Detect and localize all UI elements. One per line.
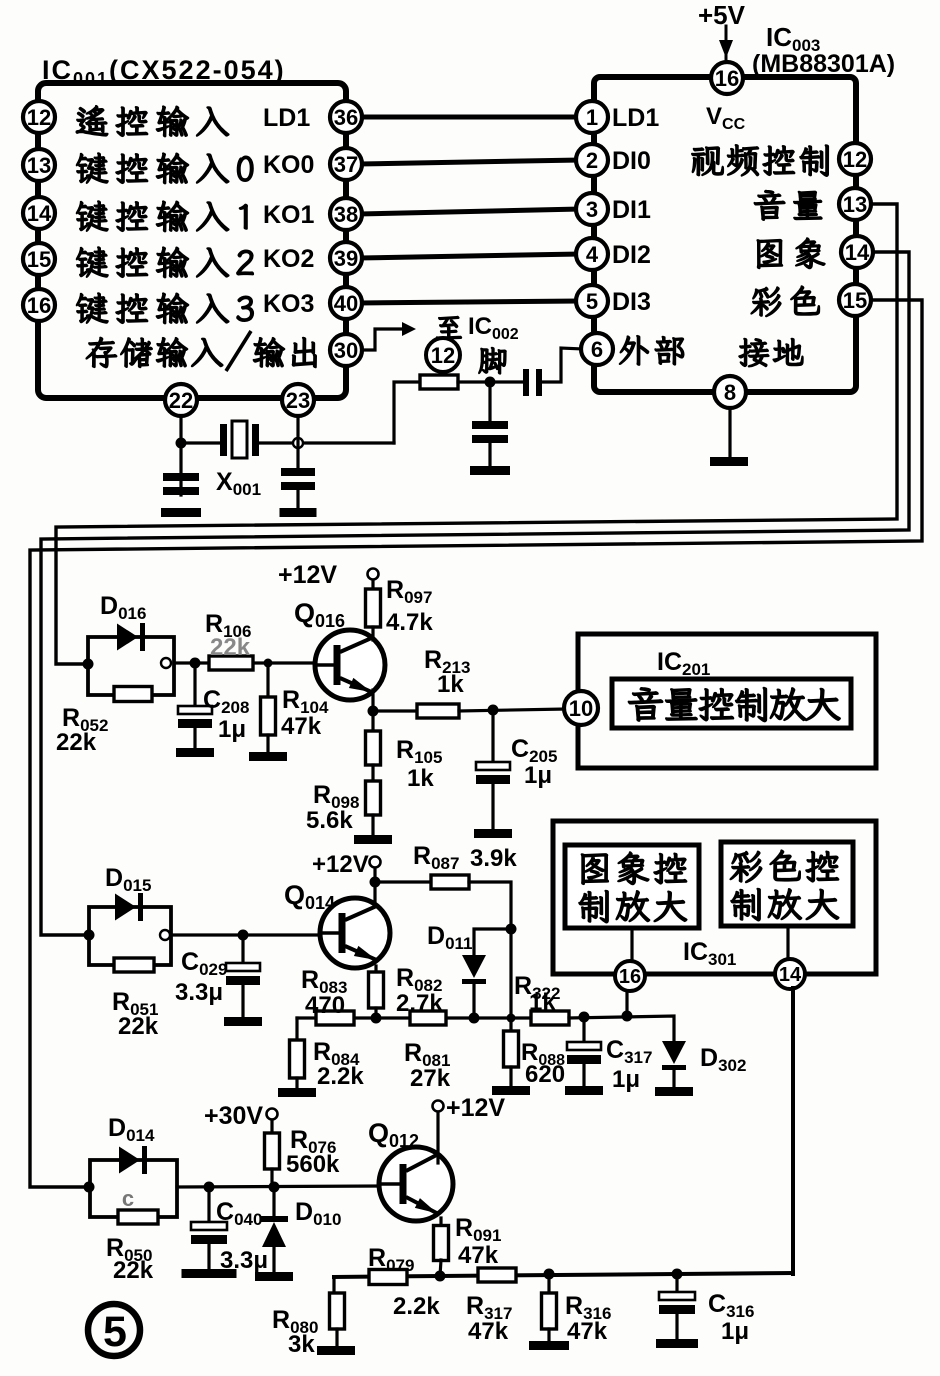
svg-text:DI1: DI1 (612, 196, 651, 224)
svg-text:c: c (122, 1186, 134, 1211)
svg-text:1μ: 1μ (218, 716, 246, 743)
svg-text:22k: 22k (118, 1013, 159, 1040)
svg-text:23: 23 (286, 388, 310, 413)
svg-text:12: 12 (843, 147, 867, 172)
svg-text:30: 30 (334, 338, 358, 363)
svg-text:15: 15 (843, 288, 867, 313)
svg-text:13: 13 (843, 192, 867, 217)
svg-text:3.3μ: 3.3μ (220, 1247, 268, 1274)
svg-text:+12V: +12V (446, 1094, 505, 1122)
svg-text:LD1: LD1 (263, 104, 310, 132)
svg-text:22k: 22k (56, 729, 97, 756)
svg-text:36: 36 (334, 105, 358, 130)
svg-text:1μ: 1μ (612, 1066, 640, 1093)
svg-text:10: 10 (569, 696, 593, 721)
svg-text:39: 39 (334, 246, 358, 271)
svg-text:6: 6 (591, 337, 603, 362)
svg-text:5: 5 (586, 289, 598, 314)
svg-text:560k: 560k (286, 1151, 340, 1178)
svg-text:2.2k: 2.2k (317, 1063, 364, 1090)
svg-text:1μ: 1μ (524, 762, 552, 789)
svg-text:5.6k: 5.6k (306, 807, 353, 834)
svg-text:1: 1 (586, 105, 598, 130)
svg-text:22: 22 (169, 388, 193, 413)
svg-text:+12V: +12V (278, 561, 337, 589)
svg-text:12: 12 (27, 105, 51, 130)
svg-text:37: 37 (334, 152, 358, 177)
svg-text:47k: 47k (281, 713, 322, 740)
svg-text:47k: 47k (567, 1318, 608, 1345)
svg-text:38: 38 (334, 202, 358, 227)
svg-text:1k: 1k (529, 989, 556, 1016)
svg-text:2.2k: 2.2k (393, 1293, 440, 1320)
svg-text:47k: 47k (458, 1242, 499, 1269)
svg-text:DI2: DI2 (612, 241, 651, 269)
svg-text:2: 2 (586, 148, 598, 173)
svg-text:1k: 1k (437, 671, 464, 698)
svg-text:16: 16 (715, 66, 739, 91)
svg-text:+12V: +12V (312, 851, 369, 878)
svg-text:1μ: 1μ (721, 1318, 749, 1345)
svg-text:3k: 3k (288, 1331, 315, 1358)
svg-text:3.9k: 3.9k (470, 845, 517, 872)
svg-text:+5V: +5V (698, 0, 746, 30)
svg-text:2.7k: 2.7k (396, 990, 443, 1017)
svg-text:22k: 22k (210, 634, 251, 661)
svg-text:+30V: +30V (204, 1102, 263, 1130)
svg-text:14: 14 (27, 201, 52, 226)
svg-text:14: 14 (779, 964, 802, 986)
svg-text:3: 3 (586, 197, 598, 222)
svg-text:22k: 22k (113, 1257, 154, 1284)
svg-text:KO3: KO3 (263, 290, 314, 318)
svg-text:16: 16 (619, 966, 641, 988)
svg-text:4: 4 (586, 242, 599, 267)
svg-text:5: 5 (103, 1308, 127, 1356)
svg-text:KO1: KO1 (263, 201, 315, 229)
svg-text:470: 470 (305, 992, 345, 1019)
svg-text:LD1: LD1 (612, 104, 659, 132)
svg-text:4.7k: 4.7k (386, 609, 433, 636)
svg-text:40: 40 (334, 291, 358, 316)
svg-text:1k: 1k (407, 765, 434, 792)
svg-text:47k: 47k (468, 1318, 509, 1345)
svg-text:16: 16 (27, 293, 51, 318)
svg-text:8: 8 (724, 380, 736, 405)
svg-text:DI0: DI0 (612, 147, 651, 175)
svg-text:15: 15 (27, 247, 51, 272)
svg-text:KO0: KO0 (263, 151, 314, 179)
svg-text:27k: 27k (410, 1065, 451, 1092)
svg-text:(MB88301A): (MB88301A) (752, 50, 895, 78)
svg-text:13: 13 (27, 153, 51, 178)
svg-text:3.3μ: 3.3μ (175, 979, 223, 1006)
svg-text:14: 14 (845, 240, 870, 265)
svg-text:DI3: DI3 (612, 288, 651, 316)
svg-text:KO2: KO2 (263, 245, 314, 273)
svg-text:620: 620 (525, 1061, 565, 1088)
svg-text:12: 12 (431, 343, 455, 368)
